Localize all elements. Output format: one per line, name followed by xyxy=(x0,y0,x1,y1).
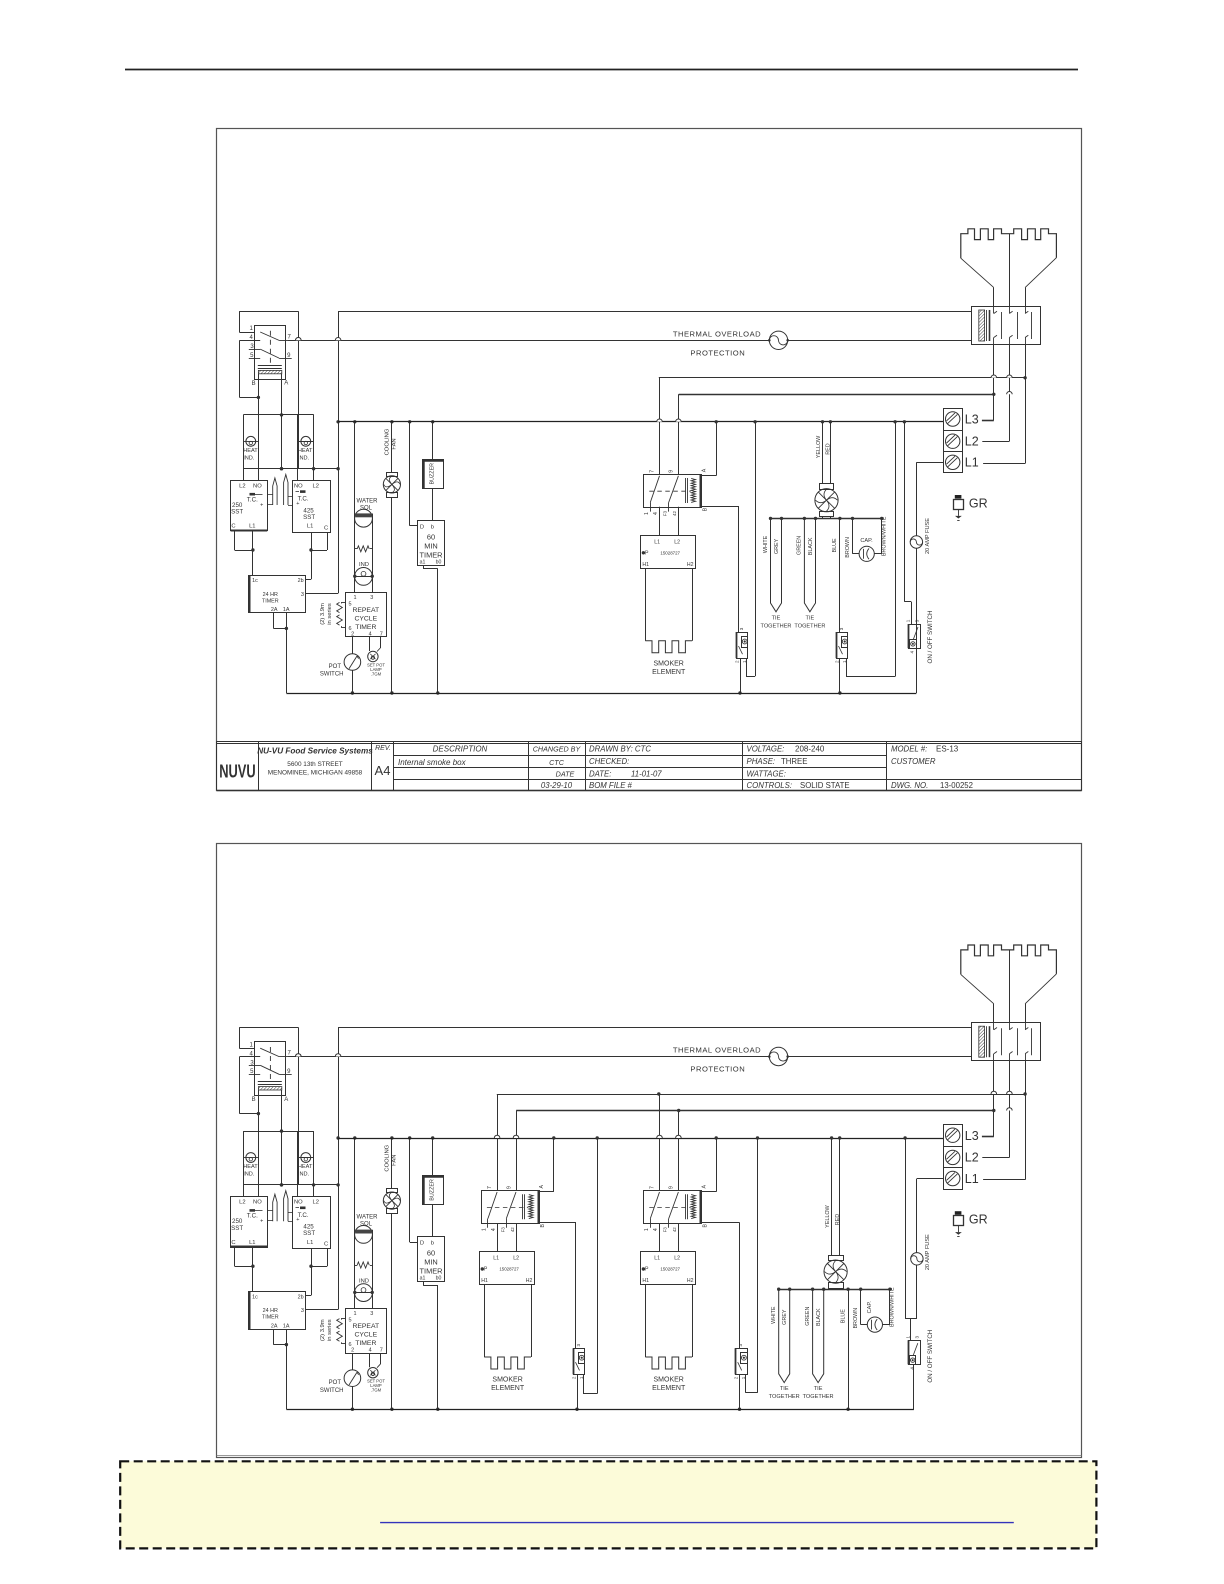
wire pole1 xyxy=(659,378,661,475)
svg-text:2: 2 xyxy=(734,1376,739,1379)
terminal screw L1 xyxy=(946,455,960,469)
svg-text:ON / OFF SWITCH: ON / OFF SWITCH xyxy=(927,611,934,664)
svg-text:TOGETHER: TOGETHER xyxy=(761,623,792,629)
lamp IND xyxy=(355,1284,373,1302)
resistor 3.9m B xyxy=(337,1331,343,1341)
svg-text:A: A xyxy=(702,1184,708,1188)
wire switch feed xyxy=(905,1138,907,1319)
svg-text:PROTECTION: PROTECTION xyxy=(690,1065,745,1074)
svg-text:A: A xyxy=(284,1097,288,1103)
svg-text:CHECKED:: CHECKED: xyxy=(589,757,629,766)
wire fuse xyxy=(916,1179,918,1319)
svg-text:PROTECTION: PROTECTION xyxy=(690,349,745,358)
wire coil A xyxy=(539,1191,554,1193)
svg-text:H1: H1 xyxy=(642,562,649,568)
svg-text:.7GM: .7GM xyxy=(371,672,382,677)
svg-text:WATER: WATER xyxy=(357,499,379,505)
wire xyxy=(577,1374,579,1409)
wire xyxy=(839,658,841,693)
svg-text:HEAT: HEAT xyxy=(298,448,313,454)
motor wire bus xyxy=(770,518,882,520)
svg-text:FAN: FAN xyxy=(391,1155,397,1166)
svg-text:3: 3 xyxy=(301,592,304,598)
svg-text:1: 1 xyxy=(353,595,356,601)
wire L1 to fuse xyxy=(916,462,943,464)
svg-text:TIMER: TIMER xyxy=(355,624,376,631)
svg-text:IND.: IND. xyxy=(243,1172,255,1178)
wire bottom bus xyxy=(286,1409,914,1411)
wire phase A xyxy=(497,1094,1025,1096)
wire timer pin3 xyxy=(305,593,338,595)
svg-text:TIMER: TIMER xyxy=(355,1340,376,1347)
svg-text:GREY: GREY xyxy=(774,538,780,554)
wire red xyxy=(839,1138,841,1255)
svg-text:C: C xyxy=(324,1242,328,1248)
svg-text:TIE: TIE xyxy=(814,1386,823,1392)
control box 15028727 xyxy=(641,536,696,569)
wire coil B xyxy=(539,1222,576,1224)
svg-text:.7GM: .7GM xyxy=(371,1388,382,1393)
svg-text:2A: 2A xyxy=(271,607,278,613)
svg-text:L1: L1 xyxy=(965,456,979,470)
svg-text:24 HR: 24 HR xyxy=(263,1308,278,1314)
wire xyxy=(993,288,995,307)
wire timer 1A xyxy=(286,613,288,693)
svg-text:L2: L2 xyxy=(965,1151,979,1165)
svg-text:REPEAT: REPEAT xyxy=(352,1323,379,1330)
wire fuse xyxy=(916,462,918,693)
svg-text:9: 9 xyxy=(669,470,675,473)
svg-text:9: 9 xyxy=(506,1186,512,1189)
wires WHITE/GREY tie together xyxy=(771,518,782,611)
wire xyxy=(432,1204,434,1236)
svg-text:BROWN/WHITE: BROWN/WHITE xyxy=(882,516,888,556)
60 MIN TIMER xyxy=(418,1237,445,1282)
svg-text:C: C xyxy=(324,525,328,531)
smoker element A xyxy=(484,1357,531,1369)
resistor 3.9m B xyxy=(337,615,343,625)
svg-text:L2: L2 xyxy=(513,1256,519,1262)
wire probe1 xyxy=(267,1210,273,1212)
svg-text:b: b xyxy=(431,1241,434,1247)
wire pin7 xyxy=(380,637,382,648)
svg-text:TIE: TIE xyxy=(780,1386,789,1392)
wire xyxy=(391,1213,393,1409)
wire xyxy=(846,658,848,676)
svg-text:H1: H1 xyxy=(642,1278,649,1284)
svg-text:BUZZER: BUZZER xyxy=(430,1179,436,1201)
wire L1 lead xyxy=(983,463,1025,465)
wire T1-L1 xyxy=(1025,345,1027,464)
svg-text:D: D xyxy=(420,1241,424,1247)
svg-text:4: 4 xyxy=(491,1228,497,1231)
wire xyxy=(746,658,748,676)
wire relay pin7 feed xyxy=(288,340,971,342)
svg-text:P: P xyxy=(484,1267,488,1273)
smoker element xyxy=(645,641,692,653)
wires GREEN/BLACK tie together xyxy=(804,518,815,611)
svg-text:2b: 2b xyxy=(298,578,304,584)
wire a1 xyxy=(423,1282,425,1286)
wire probe1 xyxy=(267,494,273,496)
svg-text:BLACK: BLACK xyxy=(816,1308,822,1326)
svg-text:IND.: IND. xyxy=(298,455,310,461)
svg-text:TOGETHER: TOGETHER xyxy=(769,1394,800,1400)
svg-text:42: 42 xyxy=(510,1227,515,1232)
svg-text:2: 2 xyxy=(351,631,354,637)
control box 15028727 A xyxy=(480,1252,535,1285)
wire timer 2A xyxy=(273,613,275,629)
wire L-feed top xyxy=(338,311,971,313)
wire T1-L2 xyxy=(1009,1061,1011,1158)
lamp HEAT IND 2 xyxy=(297,1131,299,1197)
svg-text:NO: NO xyxy=(253,1200,262,1206)
svg-text:L2: L2 xyxy=(674,540,680,546)
element lead centre xyxy=(1009,234,1011,307)
24 HR TIMER xyxy=(249,1292,306,1330)
wire blue xyxy=(839,518,841,632)
svg-text:7: 7 xyxy=(487,1186,493,1189)
svg-text:H2: H2 xyxy=(526,1278,533,1284)
wire relay A xyxy=(281,1090,283,1185)
svg-text:4: 4 xyxy=(369,1348,372,1354)
wire yellow xyxy=(831,1138,833,1255)
wire red xyxy=(830,422,832,484)
wire probe2 xyxy=(288,496,293,498)
svg-text:MODEL #:: MODEL #: xyxy=(891,745,927,754)
contactor C1 xyxy=(482,1191,540,1224)
svg-text:DRAWN BY: CTC: DRAWN BY: CTC xyxy=(589,745,651,754)
svg-text:A: A xyxy=(702,468,708,472)
wire return 2 xyxy=(895,422,897,677)
svg-text:RED: RED xyxy=(835,1214,841,1225)
wire L3 lead xyxy=(982,1136,994,1138)
terminal screw L1 xyxy=(946,1171,960,1185)
svg-text:H1: H1 xyxy=(481,1278,488,1284)
wire pin4 xyxy=(369,637,371,651)
wire L1 lead xyxy=(983,1179,1025,1181)
REPEAT CYCLE TIMER xyxy=(346,593,387,637)
wire L2 xyxy=(678,507,680,535)
svg-text:F3: F3 xyxy=(500,1227,505,1233)
ON/OFF switch S1 xyxy=(909,1341,921,1365)
svg-text:TIMER: TIMER xyxy=(420,551,443,560)
svg-text:03-29-10: 03-29-10 xyxy=(541,781,573,790)
thermal overload / contactor block T1 xyxy=(972,1023,1041,1061)
svg-text:4: 4 xyxy=(910,650,915,653)
lamp HEAT IND 1 xyxy=(243,415,245,481)
wire pin2 xyxy=(352,1353,354,1370)
svg-text:GREY: GREY xyxy=(782,1309,788,1325)
wire T1-L3 xyxy=(993,345,995,421)
svg-text:H2: H2 xyxy=(687,1278,694,1284)
wire L2 lead xyxy=(982,441,1009,443)
svg-text:YELLOW: YELLOW xyxy=(816,435,822,458)
svg-text:REPEAT: REPEAT xyxy=(352,607,379,614)
svg-text:NUVU: NUVU xyxy=(219,762,256,782)
svg-text:L1: L1 xyxy=(493,1256,499,1262)
60 MIN TIMER xyxy=(418,521,445,566)
24 HR TIMER xyxy=(249,576,306,613)
wire timer pin3 xyxy=(305,1309,338,1311)
svg-text:+: + xyxy=(260,1219,263,1225)
wire phase B xyxy=(679,394,994,396)
SET POT LAMP xyxy=(368,651,378,661)
resistor xyxy=(357,546,369,552)
svg-text:DESCRIPTION: DESCRIPTION xyxy=(433,745,488,754)
fuse 20 AMP xyxy=(911,1253,923,1265)
wire cooling fan xyxy=(391,1138,393,1188)
svg-text:1: 1 xyxy=(906,1335,911,1338)
svg-text:1: 1 xyxy=(644,1228,650,1231)
wire blue to bus xyxy=(848,1289,850,1409)
microswitch SW1 xyxy=(574,1349,585,1375)
wire return xyxy=(755,422,757,676)
svg-text:POT: POT xyxy=(329,664,342,670)
POT SWITCH xyxy=(344,654,361,671)
terminal screw L2 xyxy=(946,434,960,448)
svg-text:1A: 1A xyxy=(283,1323,290,1329)
svg-text:BOM FILE #: BOM FILE # xyxy=(589,781,633,790)
wire yellow xyxy=(822,422,824,484)
top drawing frame xyxy=(217,129,1082,791)
svg-text:L1: L1 xyxy=(965,1172,979,1186)
wire buzzer xyxy=(432,422,434,460)
svg-text:L1: L1 xyxy=(654,1256,660,1262)
svg-text:BROWN: BROWN xyxy=(853,1308,859,1329)
svg-text:208-240: 208-240 xyxy=(795,745,825,754)
wire relay pin7 feed xyxy=(288,1056,971,1058)
svg-text:GREEN: GREEN xyxy=(805,1307,811,1326)
BUZZER xyxy=(423,460,444,489)
title block xyxy=(217,741,1082,743)
wire relay A xyxy=(281,374,283,469)
svg-text:L1: L1 xyxy=(307,1240,313,1246)
svg-text:BROWN: BROWN xyxy=(845,537,851,558)
svg-text:L2: L2 xyxy=(312,484,318,490)
svg-text:B: B xyxy=(252,1097,256,1103)
wire xyxy=(993,1004,995,1023)
svg-text:DATE: DATE xyxy=(556,770,575,779)
svg-text:WHITE: WHITE xyxy=(771,1306,777,1324)
wires GREEN/BLACK tie together xyxy=(813,1289,824,1382)
svg-text:SST: SST xyxy=(231,1225,243,1232)
svg-text:F3: F3 xyxy=(663,1227,668,1233)
svg-text:3: 3 xyxy=(370,1311,373,1317)
svg-text:NU-VU Food Service Systems: NU-VU Food Service Systems xyxy=(257,747,373,756)
svg-text:L1: L1 xyxy=(307,524,313,530)
svg-text:CUSTOMER: CUSTOMER xyxy=(891,757,936,766)
wire rail left xyxy=(354,422,356,592)
thermocouple probe xyxy=(273,478,277,505)
svg-text:20 AMP FUSE: 20 AMP FUSE xyxy=(925,518,931,554)
svg-text:SOLID STATE: SOLID STATE xyxy=(800,781,850,790)
terminal screw L3 xyxy=(946,412,960,426)
microswitch SW2 xyxy=(837,633,848,659)
svg-text:BROWN/WHITE: BROWN/WHITE xyxy=(890,1287,896,1327)
svg-text:SMOKER: SMOKER xyxy=(654,661,684,668)
wire coil A xyxy=(701,1191,716,1193)
svg-text:9: 9 xyxy=(669,1186,675,1189)
resistor lead xyxy=(355,1265,358,1267)
wire 60min feed xyxy=(409,422,411,526)
svg-text:3: 3 xyxy=(370,595,373,601)
svg-text:20 AMP FUSE: 20 AMP FUSE xyxy=(925,1234,931,1270)
svg-text:TIE: TIE xyxy=(772,615,781,621)
wire coil B xyxy=(701,506,738,508)
thermal overload symbol xyxy=(769,1047,787,1065)
svg-text:2: 2 xyxy=(572,1376,577,1379)
microswitch SW1 xyxy=(737,633,748,659)
svg-text:PHASE:: PHASE: xyxy=(747,757,776,766)
top rule xyxy=(125,69,1078,71)
svg-text:in series: in series xyxy=(327,1319,333,1341)
note box (yellow) xyxy=(120,1461,1096,1548)
svg-text:5: 5 xyxy=(349,601,352,607)
relay K1 (left control relay) xyxy=(239,311,298,313)
svg-text:ON / OFF SWITCH: ON / OFF SWITCH xyxy=(927,1330,934,1383)
wire brown xyxy=(852,518,854,553)
svg-text:ELEMENT: ELEMENT xyxy=(652,1385,686,1392)
wire main bus xyxy=(338,1138,943,1140)
wire pin7 xyxy=(380,1353,382,1364)
svg-text:Internal smoke box: Internal smoke box xyxy=(398,758,467,767)
svg-text:3: 3 xyxy=(739,627,744,630)
resistor lead xyxy=(355,548,358,550)
svg-text:TOGETHER: TOGETHER xyxy=(794,623,825,629)
thermocouple probe xyxy=(273,1194,277,1221)
wire L1 to fuse xyxy=(917,1178,943,1180)
svg-text:THERMAL OVERLOAD: THERMAL OVERLOAD xyxy=(673,330,761,339)
svg-text:L2: L2 xyxy=(239,484,245,490)
wire rail right xyxy=(372,1230,374,1309)
svg-text:H2: H2 xyxy=(687,562,694,568)
thermal overload / contactor block T1 xyxy=(972,307,1041,345)
svg-text:SOL: SOL xyxy=(360,506,373,512)
wire heat-ind feed xyxy=(243,1131,313,1133)
ground terminal GR xyxy=(955,1211,962,1215)
svg-text:60: 60 xyxy=(427,1249,435,1258)
svg-text:CHANGED BY: CHANGED BY xyxy=(533,745,582,754)
svg-text:3: 3 xyxy=(301,1308,304,1314)
svg-text:15028727: 15028727 xyxy=(660,551,680,556)
heating element (crenellated) xyxy=(961,945,1057,974)
svg-text:1: 1 xyxy=(353,1311,356,1317)
wire L3 lead xyxy=(982,420,994,422)
svg-text:HEAT: HEAT xyxy=(298,1164,313,1170)
svg-text:ELEMENT: ELEMENT xyxy=(652,669,686,676)
lamp IND xyxy=(355,568,373,586)
svg-text:2A: 2A xyxy=(271,1323,278,1329)
svg-text:CONTROLS:: CONTROLS: xyxy=(747,781,793,790)
thermocouple probe xyxy=(284,475,288,506)
svg-text:A: A xyxy=(539,1184,545,1188)
wire probe2 xyxy=(288,1212,293,1214)
svg-text:SST: SST xyxy=(231,509,243,516)
svg-text:HEAT: HEAT xyxy=(243,448,258,454)
wire a1 xyxy=(423,565,425,569)
terminal screw L3 xyxy=(946,1128,960,1142)
svg-text:SMOKER: SMOKER xyxy=(492,1377,522,1384)
svg-text:SST: SST xyxy=(303,514,315,521)
svg-text:POT: POT xyxy=(329,1380,342,1386)
svg-text:2: 2 xyxy=(735,660,740,663)
svg-text:in series: in series xyxy=(327,603,333,625)
svg-text:ES-13: ES-13 xyxy=(936,745,959,754)
svg-text:b0: b0 xyxy=(436,560,442,566)
svg-text:b: b xyxy=(431,524,434,530)
resistor 3.9m A xyxy=(337,602,343,612)
WATER SOL valve xyxy=(355,1226,373,1244)
svg-text:ELEMENT: ELEMENT xyxy=(491,1385,525,1392)
svg-text:1c: 1c xyxy=(252,578,258,584)
wire L-feed top xyxy=(338,1027,971,1029)
wires WHITE/GREY tie together xyxy=(779,1289,790,1382)
svg-text:a1: a1 xyxy=(420,560,426,566)
svg-text:WATER: WATER xyxy=(357,1215,379,1221)
svg-text:REV.: REV. xyxy=(375,745,391,752)
wire xyxy=(432,488,434,520)
svg-text:B: B xyxy=(252,381,256,387)
wire brown xyxy=(860,1289,862,1324)
wire pole2 xyxy=(678,394,680,474)
wire coil B xyxy=(701,1222,739,1224)
svg-text:(2) 3.9m: (2) 3.9m xyxy=(320,603,326,625)
wire cooling fan xyxy=(391,422,393,472)
POT SWITCH xyxy=(344,1370,361,1387)
svg-text:TIMER: TIMER xyxy=(262,599,279,605)
svg-text:3: 3 xyxy=(915,619,920,622)
wire H2 xyxy=(692,568,694,641)
svg-text:7: 7 xyxy=(380,631,383,637)
wire buzzer xyxy=(432,1138,434,1176)
svg-text:RED: RED xyxy=(826,443,832,454)
wire pole1 xyxy=(497,1094,499,1191)
svg-text:B: B xyxy=(540,1223,546,1227)
wire phase B xyxy=(516,1110,994,1112)
svg-text:WHITE: WHITE xyxy=(763,535,769,553)
wire coil A xyxy=(701,475,716,477)
svg-text:BLUE: BLUE xyxy=(832,538,838,552)
svg-text:DATE:: DATE: xyxy=(589,770,611,779)
smoker element B xyxy=(645,1357,692,1369)
svg-text:SST: SST xyxy=(303,1230,315,1237)
microswitch SW2 xyxy=(736,1349,748,1375)
svg-text:24 HR: 24 HR xyxy=(263,592,278,598)
element lead centre xyxy=(1009,950,1011,1023)
wire brown/white xyxy=(881,518,883,553)
svg-text:B: B xyxy=(703,1223,709,1227)
svg-text:CYCLE: CYCLE xyxy=(354,1332,377,1339)
svg-text:TOGETHER: TOGETHER xyxy=(803,1394,834,1400)
thermostat 425 SST xyxy=(293,1197,331,1249)
svg-text:MIN: MIN xyxy=(424,542,438,551)
svg-text:2b: 2b xyxy=(298,1294,304,1300)
lamp HEAT IND 2 xyxy=(297,415,299,481)
svg-text:BLUE: BLUE xyxy=(840,1309,846,1323)
element lead left slant xyxy=(961,258,994,287)
svg-text:4: 4 xyxy=(369,631,372,637)
ground terminal GR xyxy=(955,495,962,499)
wire relay B xyxy=(258,374,260,415)
wire 60min feed xyxy=(409,1138,411,1242)
svg-text:MENOMINEE, MICHIGAN 49858: MENOMINEE, MICHIGAN 49858 xyxy=(268,770,363,777)
svg-text:1c: 1c xyxy=(252,1294,258,1300)
svg-text:F3: F3 xyxy=(663,510,668,516)
svg-text:2: 2 xyxy=(351,1348,354,1354)
svg-text:L1: L1 xyxy=(654,540,660,546)
REPEAT CYCLE TIMER xyxy=(346,1309,387,1354)
